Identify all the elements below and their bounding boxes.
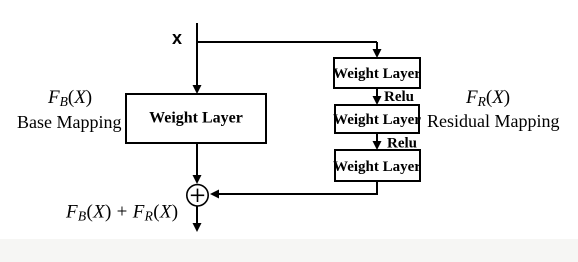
wire: box2 to box3 [373,133,382,150]
svg-text:x: x [172,28,182,48]
svg-text:FB(X): FB(X) [47,87,92,109]
input x label [172,28,182,48]
wire: adder output [193,207,202,233]
svg-text:Relu: Relu [384,89,414,105]
svg-text:FR(X): FR(X) [465,87,510,109]
weight layer box 2 (residual) [333,105,421,133]
weight layer box 3 (residual) [333,150,421,181]
wire: input vertical into base weight layer [193,23,202,94]
relu label 1 [384,89,414,105]
label Residual Mapping [427,111,560,131]
wire: box3 down and left into adder [210,181,377,199]
label F_R(X) [465,87,510,109]
adder node (plus circle) [187,185,208,206]
wire: branch to residual path [196,41,377,43]
wire: box1 to box2 [373,88,382,105]
wire: base box to adder [193,143,202,184]
wire: into residual weight layer 1 [373,42,382,58]
svg-text:Weight Layer: Weight Layer [333,159,421,175]
svg-text:Weight Layer: Weight Layer [333,66,421,82]
svg-text:Base Mapping: Base Mapping [17,112,121,132]
label F_B(X) + F_R(X) [65,202,178,224]
svg-text:Weight Layer: Weight Layer [149,110,243,127]
weight layer box 1 (residual) [333,58,421,88]
weight layer box (base mapping) [126,94,266,143]
svg-text:Residual Mapping: Residual Mapping [427,111,560,131]
label F_B(X) [47,87,92,109]
label Base Mapping [17,112,121,132]
relu label 2 [387,136,417,152]
svg-text:Weight Layer: Weight Layer [333,112,421,128]
